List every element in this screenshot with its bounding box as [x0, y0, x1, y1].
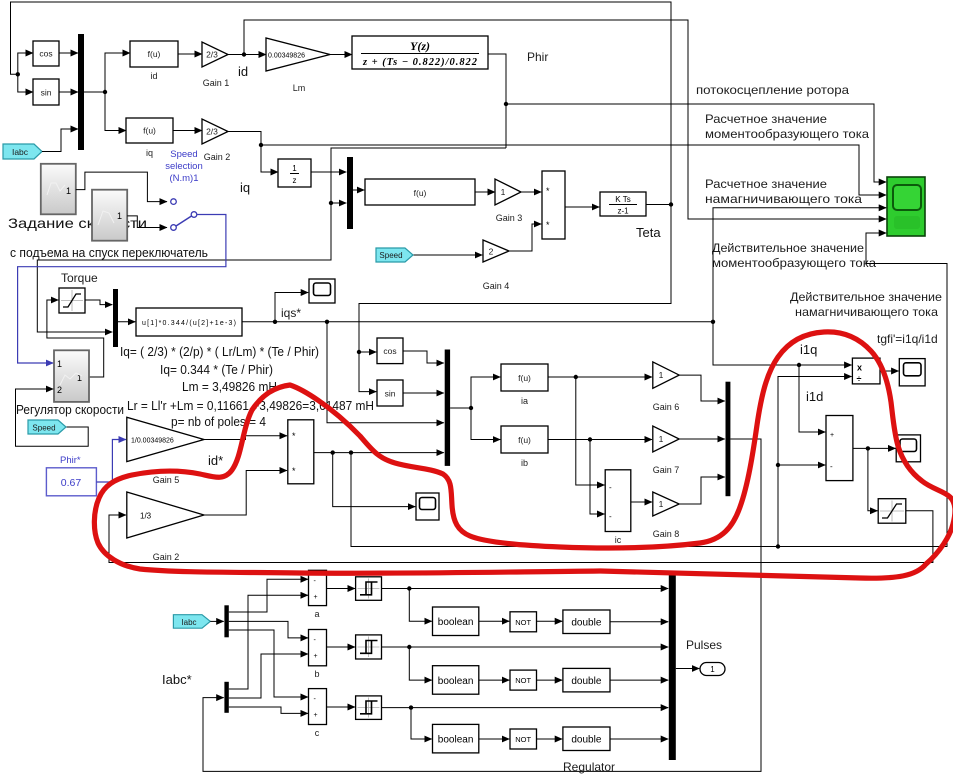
svg-text:1: 1 [66, 186, 71, 196]
wire sin2 to mux4 [403, 392, 444, 394]
wire id to Gain 1 [178, 53, 202, 55]
svg-text:Regulator: Regulator [563, 760, 615, 774]
wire demux1 out2 to sum b minus [229, 621, 308, 638]
input tag Speed (2) [376, 248, 413, 262]
wire ic to Gain 8 [631, 501, 652, 503]
wire relay c to mux8 [382, 705, 669, 709]
mux Mux1 [78, 34, 84, 150]
wire NOT3 to double3 [537, 738, 563, 740]
wire iq to Gain 2 [173, 130, 202, 132]
annotation Расчетное значение намагничивающего тока [705, 177, 862, 206]
label Phir [527, 50, 548, 64]
svg-text:+: + [830, 432, 834, 439]
wire mux5 output loop to Iabc* demux [203, 439, 761, 771]
svg-text:Gain 4: Gain 4 [483, 281, 510, 291]
svg-text:1/3: 1/3 [140, 512, 152, 521]
svg-text:Iabc*: Iabc* [162, 672, 192, 687]
svg-text:2: 2 [57, 385, 62, 395]
annotation Расчетное значение моментообразующего тока [705, 112, 869, 141]
svg-text:Iq= 0.344 * (Te / Phir): Iq= 0.344 * (Te / Phir) [160, 363, 273, 377]
svg-text:c: c [315, 728, 320, 738]
svg-text:b: b [314, 669, 319, 679]
svg-text:1: 1 [57, 359, 62, 369]
svg-text:boolean: boolean [438, 617, 474, 628]
wire relay a to mux8 [382, 586, 669, 590]
block f(u) ib [501, 426, 548, 468]
svg-text:Y(z): Y(z) [410, 39, 430, 53]
wire i1d branch to sum - input [778, 464, 825, 466]
svg-text:*: * [292, 431, 296, 441]
sum b [309, 630, 327, 680]
block f(u) id [130, 41, 178, 81]
input tag Iabc (2) [173, 615, 210, 629]
svg-text:Torque: Torque [61, 271, 98, 285]
svg-text:Расчетное значение: Расчетное значение [705, 177, 827, 191]
svg-text:cos: cos [383, 346, 396, 356]
wire mux2 to f(u) [353, 189, 364, 191]
mux Mux5 [726, 382, 731, 497]
gain Gain 4 (2) [483, 240, 510, 291]
label Pulses [686, 638, 722, 652]
svg-text:ib: ib [521, 458, 528, 468]
wire iqs* up to scope1 [275, 293, 308, 322]
svg-text:-: - [609, 483, 612, 492]
svg-text:Gain 6: Gain 6 [653, 402, 680, 412]
wire cos2 to mux4 [403, 351, 444, 363]
svg-text:*: * [546, 220, 550, 230]
wire relay c branch to boolean [411, 708, 432, 739]
wire demux1 out1 to sum a minus [229, 579, 308, 612]
svg-text:(N.m)1: (N.m)1 [169, 173, 198, 184]
node Phir to mux2 (331,203) [329, 201, 333, 205]
label Iabc* [162, 672, 192, 687]
annotation Действительное значение намагничивающего тока [790, 290, 942, 319]
wire sum branch to saturation 2 [868, 448, 878, 510]
svg-text:Gain 1: Gain 1 [203, 78, 230, 88]
wire product2 down to i1d line P [351, 233, 947, 549]
svg-text:0.67: 0.67 [61, 477, 82, 489]
svg-text:double: double [571, 618, 601, 629]
wire Phir left to torque mux [37, 148, 506, 332]
wire iq to scope input 2 [261, 145, 886, 195]
equation Iq=(2/3)*(2/p)*(Lr/Lm)*(Te/Phir) [120, 345, 319, 359]
svg-text:Gain 2: Gain 2 [204, 152, 231, 162]
svg-text:iqs*: iqs* [281, 306, 301, 320]
wire mux1 out [84, 91, 105, 93]
demux Iabc [224, 605, 228, 637]
svg-text:u[1]*0.344/(u[2]+1e-3): u[1]*0.344/(u[2]+1e-3) [142, 320, 236, 327]
wire demux2 out3 to sum c plus [229, 707, 308, 713]
svg-text:f(u): f(u) [414, 188, 427, 198]
wire iqs* down to mux4 input 3 [327, 322, 444, 423]
node junction at (17.8,74.3) [16, 72, 20, 76]
wire Gain 6 to mux5 [679, 375, 725, 401]
svg-text:Gain 7: Gain 7 [653, 465, 680, 475]
svg-text:потокосцепление ротора: потокосцепление ротора [696, 83, 849, 97]
input tag Speed (3) [28, 420, 66, 434]
boolean 1 [433, 607, 479, 636]
scope 2 (small) [416, 493, 439, 520]
svg-text:K Ts: K Ts [615, 195, 630, 204]
equation Lm=3,49826 mH [182, 380, 277, 394]
wire ia to Gain 6 [548, 375, 652, 379]
svg-text:boolean: boolean [438, 676, 474, 687]
equation p = nb of poles = 4 [171, 415, 266, 429]
NOT 2 [510, 670, 537, 690]
wire to sin [18, 74, 33, 92]
svg-text:1: 1 [659, 499, 664, 509]
node Phir junction (506,104) [504, 102, 508, 106]
manual switch [171, 199, 197, 231]
svg-text:Speed: Speed [170, 149, 197, 160]
output port 1 (Pulses) [700, 663, 725, 676]
svg-text:1: 1 [292, 164, 297, 173]
svg-text:Gain 2: Gain 2 [153, 552, 180, 562]
mux Mux2 [347, 157, 353, 229]
svg-text:2/3: 2/3 [206, 127, 218, 137]
svg-text:-: - [830, 462, 833, 471]
svg-text:f(u): f(u) [143, 126, 156, 136]
svg-text:selection: selection [165, 161, 203, 172]
label id* [208, 453, 223, 468]
svg-text:cos: cos [39, 49, 52, 59]
wire Teta top loop (from K Ts output up and across to cos/sin) [11, 2, 672, 205]
wire to f(u) iq [105, 92, 126, 131]
wire iqs*/i1q to scope input 3 [713, 208, 886, 322]
svg-text:f(u): f(u) [148, 49, 161, 59]
svg-text:Teta: Teta [636, 225, 661, 240]
svg-text:*: * [546, 186, 550, 196]
boolean 3 [433, 724, 479, 753]
wire Gain 4 to product input 2 [509, 224, 541, 251]
wire double2 to mux8 [610, 679, 668, 681]
label Регулятор скорости [16, 403, 124, 417]
wire iq signal down to 1/z and y145 line [228, 132, 278, 173]
wire i1d up to divide input 2 [776, 377, 852, 547]
svg-text:1: 1 [659, 434, 664, 444]
wire saturation to mux3 [85, 300, 112, 305]
wire divide to scope3 [880, 370, 899, 372]
wire Phir to mux2 input 2 [331, 202, 346, 204]
svg-text:Iabc: Iabc [12, 147, 29, 157]
svg-text:z-1: z-1 [617, 207, 629, 216]
saturation 2 [878, 499, 906, 524]
svg-text:id*: id* [208, 453, 223, 468]
divide block x / div [852, 358, 880, 384]
svg-text:x: x [857, 363, 862, 373]
node teta to cos/sin junction [357, 350, 361, 354]
product block (slip x speed) [542, 171, 565, 239]
svg-text:NOT: NOT [515, 618, 531, 627]
wire sum to scope4 [853, 446, 896, 450]
wire to f(u) ia [471, 377, 500, 408]
sum ic (-u1-u2) [605, 470, 631, 545]
wire subsystem2 to switch contact 2 [127, 216, 167, 228]
block sin 2 [377, 380, 403, 406]
svg-text:+: + [314, 594, 318, 601]
label Regulator [563, 760, 615, 774]
wire ib branch to ic sum [590, 440, 605, 515]
wire to cos2 [359, 351, 376, 353]
wire Gain 5 to product2 input 1 [204, 436, 287, 440]
svg-text:0.00349826: 0.00349826 [268, 53, 305, 60]
block K Ts/(z-1) discrete integrator [600, 192, 646, 216]
svg-text:Расчетное значение: Расчетное значение [705, 112, 827, 126]
wire regulator output loop into saturation [47, 300, 104, 377]
wire sum a to relay a [327, 588, 356, 590]
wire id loop up to scope input 4 [244, 20, 886, 219]
svg-text:double: double [571, 676, 601, 687]
svg-text:Speed: Speed [32, 424, 55, 433]
wire to f(u) ib [471, 408, 500, 440]
gain Lm (0.00349826) [266, 38, 330, 93]
svg-text:double: double [571, 735, 601, 746]
gain Gain 2 (2/3) [202, 119, 230, 162]
boolean 2 [433, 666, 479, 695]
constant 0.67 [46, 468, 96, 496]
scope (green, 5 inputs) [887, 177, 925, 236]
wire 1/z to mux2 [311, 171, 346, 173]
svg-text:1: 1 [501, 187, 506, 197]
double 2 [563, 668, 610, 692]
wire mux3 to torque f(u) [118, 321, 135, 323]
sum a [309, 570, 327, 619]
svg-text:намагничивающего тока: намагничивающего тока [705, 192, 862, 206]
wire Iabc to demux [210, 620, 223, 622]
svg-text:Gain 8: Gain 8 [653, 529, 680, 539]
relay a [356, 577, 382, 601]
saturation block (torque limit) [59, 288, 85, 313]
wire relay b branch to boolean [409, 647, 432, 680]
equation Iq=0.344*(Te/Phir) [160, 363, 273, 377]
wire NOT1 to double1 [537, 620, 563, 622]
svg-text:a: a [314, 609, 319, 619]
svg-text:Phir*: Phir* [60, 455, 81, 466]
wire f(u) to Gain 3 [475, 191, 495, 193]
wire ib to Gain 7 [548, 437, 652, 441]
subsystem ramp 2 [92, 190, 127, 241]
wire switch to speed regulator input 1 (blue) [18, 215, 226, 364]
sum block (i1q - i1d) [826, 416, 853, 481]
node at (105,92) [103, 90, 107, 94]
svg-text:z + (Ts − 0.822)/0.822: z + (Ts − 0.822)/0.822 [362, 57, 478, 68]
svg-text:sin: sin [41, 88, 52, 98]
svg-text:iq: iq [240, 180, 250, 195]
wire Gain 2 to product2 input 2 [204, 471, 287, 516]
annotation Speed selection (N.m)1 [165, 149, 203, 184]
svg-text:boolean: boolean [438, 735, 474, 746]
scope 4 (small) [896, 435, 920, 462]
wire boolean1 to NOT1 [479, 620, 510, 622]
label i1d [806, 389, 823, 404]
product2 (id* calc) [288, 420, 314, 484]
svg-text:÷: ÷ [857, 374, 862, 384]
wire demux1 out3 to sum c minus [229, 630, 308, 697]
annotation tgfi'=i1q/i1d [877, 332, 938, 346]
label Torque [61, 271, 98, 285]
svg-text:Pulses: Pulses [686, 638, 722, 652]
svg-text:*: * [292, 466, 296, 476]
svg-text:-: - [609, 512, 612, 521]
input tag Iabc [3, 144, 42, 159]
wire product to K Ts [565, 206, 599, 208]
wire demux2 out1 to sum a plus [229, 595, 308, 689]
double 1 [563, 610, 610, 634]
wire boolean2 to NOT2 [479, 679, 510, 681]
svg-text:2: 2 [489, 247, 494, 257]
svg-text:Phir: Phir [527, 50, 548, 64]
svg-text:с подъема на спуск переключат: с подъема на спуск переключатель [10, 245, 208, 260]
label Задание скорости [8, 215, 147, 231]
svg-text:iq: iq [146, 148, 153, 158]
scope 3 (tgfi) [899, 359, 925, 386]
wire demux2 out2 to sum b plus [229, 654, 308, 698]
svg-text:2/3: 2/3 [206, 50, 218, 60]
annotation Phir* [60, 455, 81, 466]
wire sum b to relay b [327, 646, 356, 648]
svg-text:Gain 5: Gain 5 [153, 475, 180, 485]
svg-text:f(u): f(u) [518, 435, 531, 445]
gain Gain 1 (2/3) [202, 42, 229, 88]
svg-text:sin: sin [385, 389, 396, 399]
wire to sin2 [359, 352, 376, 392]
svg-text:моментообразующего тока: моментообразующего тока [705, 127, 869, 141]
svg-text:z: z [293, 176, 297, 185]
svg-text:Lm: Lm [293, 83, 306, 93]
svg-text:Действительное значение: Действительное значение [712, 241, 864, 255]
svg-text:ia: ia [521, 396, 528, 406]
wire sum c to relay c [327, 706, 356, 708]
wire double3 to mux8 [610, 738, 668, 740]
svg-text:Регулятор скорости: Регулятор скорости [16, 403, 124, 417]
label iqs* [281, 306, 301, 320]
svg-text:Gain 3: Gain 3 [496, 213, 523, 223]
wire Gain 3 to product [521, 191, 541, 193]
gain Gain 3 (1) [495, 179, 522, 223]
wire Speed tag to regulator input 2 [16, 389, 89, 446]
mux Mux3 [113, 289, 118, 347]
label iq (signal) [240, 180, 250, 195]
wire Phir output down [488, 54, 506, 148]
relay b [356, 635, 382, 659]
svg-text:i1q: i1q [800, 342, 817, 357]
block f(u) ia [501, 364, 548, 406]
annotation с подъема на спуск переключатель [10, 245, 208, 260]
svg-text:Действительное значение: Действительное значение [790, 290, 942, 304]
subsystem Регулятор скорости [54, 350, 89, 402]
wire relay a branch to boolean [409, 589, 432, 622]
wire mux4 output [450, 406, 473, 410]
svg-text:NOT: NOT [515, 676, 531, 685]
double 3 [563, 727, 610, 751]
wire Gain 8 to mux5 [679, 477, 725, 504]
svg-text:f(u): f(u) [518, 373, 531, 383]
wire product2 output to mux4 input 4 [314, 450, 444, 454]
block sin [33, 79, 59, 105]
node id output junction [228, 52, 266, 56]
wire Lm to Transfer Fcn [330, 54, 352, 56]
block cos 2 [377, 338, 403, 364]
wire Phir to scope input 1 [506, 104, 886, 182]
svg-text:tgfi'=i1q/i1d: tgfi'=i1q/i1d [877, 332, 938, 346]
svg-text:1: 1 [659, 370, 664, 380]
block f(u) slip [365, 179, 475, 205]
wire mux8 to out port [676, 668, 700, 670]
wire cos to mux [59, 52, 78, 54]
sum c [309, 689, 327, 738]
wire Gain 7 to mux5 [679, 438, 725, 440]
wire 0.67 to Gain 5 (blue) [96, 440, 126, 483]
wire iqs* output line [242, 320, 715, 324]
wire ia branch to ic sum [576, 377, 605, 485]
annotation потокосцепление ротора [696, 83, 849, 97]
wire saturation2 feedback loop to Gain 2 (1/3) [109, 511, 933, 563]
wire to cos [18, 53, 33, 74]
svg-text:+: + [314, 712, 318, 719]
wire Teta down and left to cos/sin 2 [359, 205, 671, 353]
svg-text:+: + [314, 653, 318, 660]
NOT 3 [510, 729, 537, 749]
wire double1 to mux8 [610, 621, 668, 623]
wire i1q branch to sum + input [799, 365, 825, 432]
gain Gain 8 (1) [653, 492, 680, 539]
gain Gain 7 (1) [653, 426, 680, 475]
block cos [33, 41, 59, 66]
wire relay b to mux8 [382, 645, 669, 649]
NOT 1 [510, 612, 537, 632]
label i1q [800, 342, 817, 357]
gain Gain 6 (1) [653, 362, 680, 412]
gain Gain 2 (1/3) [127, 492, 204, 562]
mux Mux8 [669, 573, 676, 760]
gain Gain 5 (1/0.00349826) [127, 417, 204, 485]
wire Speed tag to Gain 4 [413, 254, 482, 256]
block f(u) iq [126, 118, 173, 158]
wire i1q to divide block [713, 322, 852, 367]
demux Iabc* [224, 682, 228, 713]
wire sin to mux [59, 91, 78, 93]
svg-text:Lm = 3,49826 mH: Lm = 3,49826 mH [182, 380, 277, 394]
block Transfer Fcn Y(z)/(z+(Ts-0.822)/0.822) [352, 36, 488, 69]
wire product2 to scope2 [333, 453, 416, 507]
svg-text:1/0.00349826: 1/0.00349826 [131, 438, 174, 445]
svg-text:Speed: Speed [379, 251, 402, 260]
wire NOT2 to double2 [537, 679, 563, 681]
svg-text:i1d: i1d [806, 389, 823, 404]
svg-text:NOT: NOT [515, 735, 531, 744]
label id (signal) [238, 64, 248, 79]
svg-text:1: 1 [117, 211, 122, 221]
svg-text:ic: ic [615, 535, 622, 545]
svg-text:1: 1 [710, 665, 715, 674]
wire Iabc to mux [42, 129, 78, 152]
subsystem Задание скорости [41, 164, 76, 215]
wire subsystem1 to switch contact 1 [76, 172, 167, 202]
scope iqs* (small) [309, 279, 335, 303]
label Teta [636, 225, 661, 240]
wire to f(u) id [105, 53, 130, 92]
block Unit Delay 1/z [278, 159, 311, 187]
annotation Действительное значение моментообразующего тока [712, 241, 876, 270]
svg-text:id: id [238, 64, 248, 79]
svg-text:Iq= ( 2/3) * (2/p) * ( Lr/Lm): Iq= ( 2/3) * (2/p) * ( Lr/Lm) * (Te / Ph… [120, 345, 319, 359]
relay c [356, 696, 382, 720]
svg-text:Iabc: Iabc [181, 618, 196, 627]
equation Lr = Llr + Lm [127, 399, 374, 413]
block u[1]*0.344/(u[2]+1e-3) [136, 308, 242, 336]
svg-text:моментообразующего тока: моментообразующего тока [712, 256, 876, 270]
svg-text:id: id [150, 71, 157, 81]
